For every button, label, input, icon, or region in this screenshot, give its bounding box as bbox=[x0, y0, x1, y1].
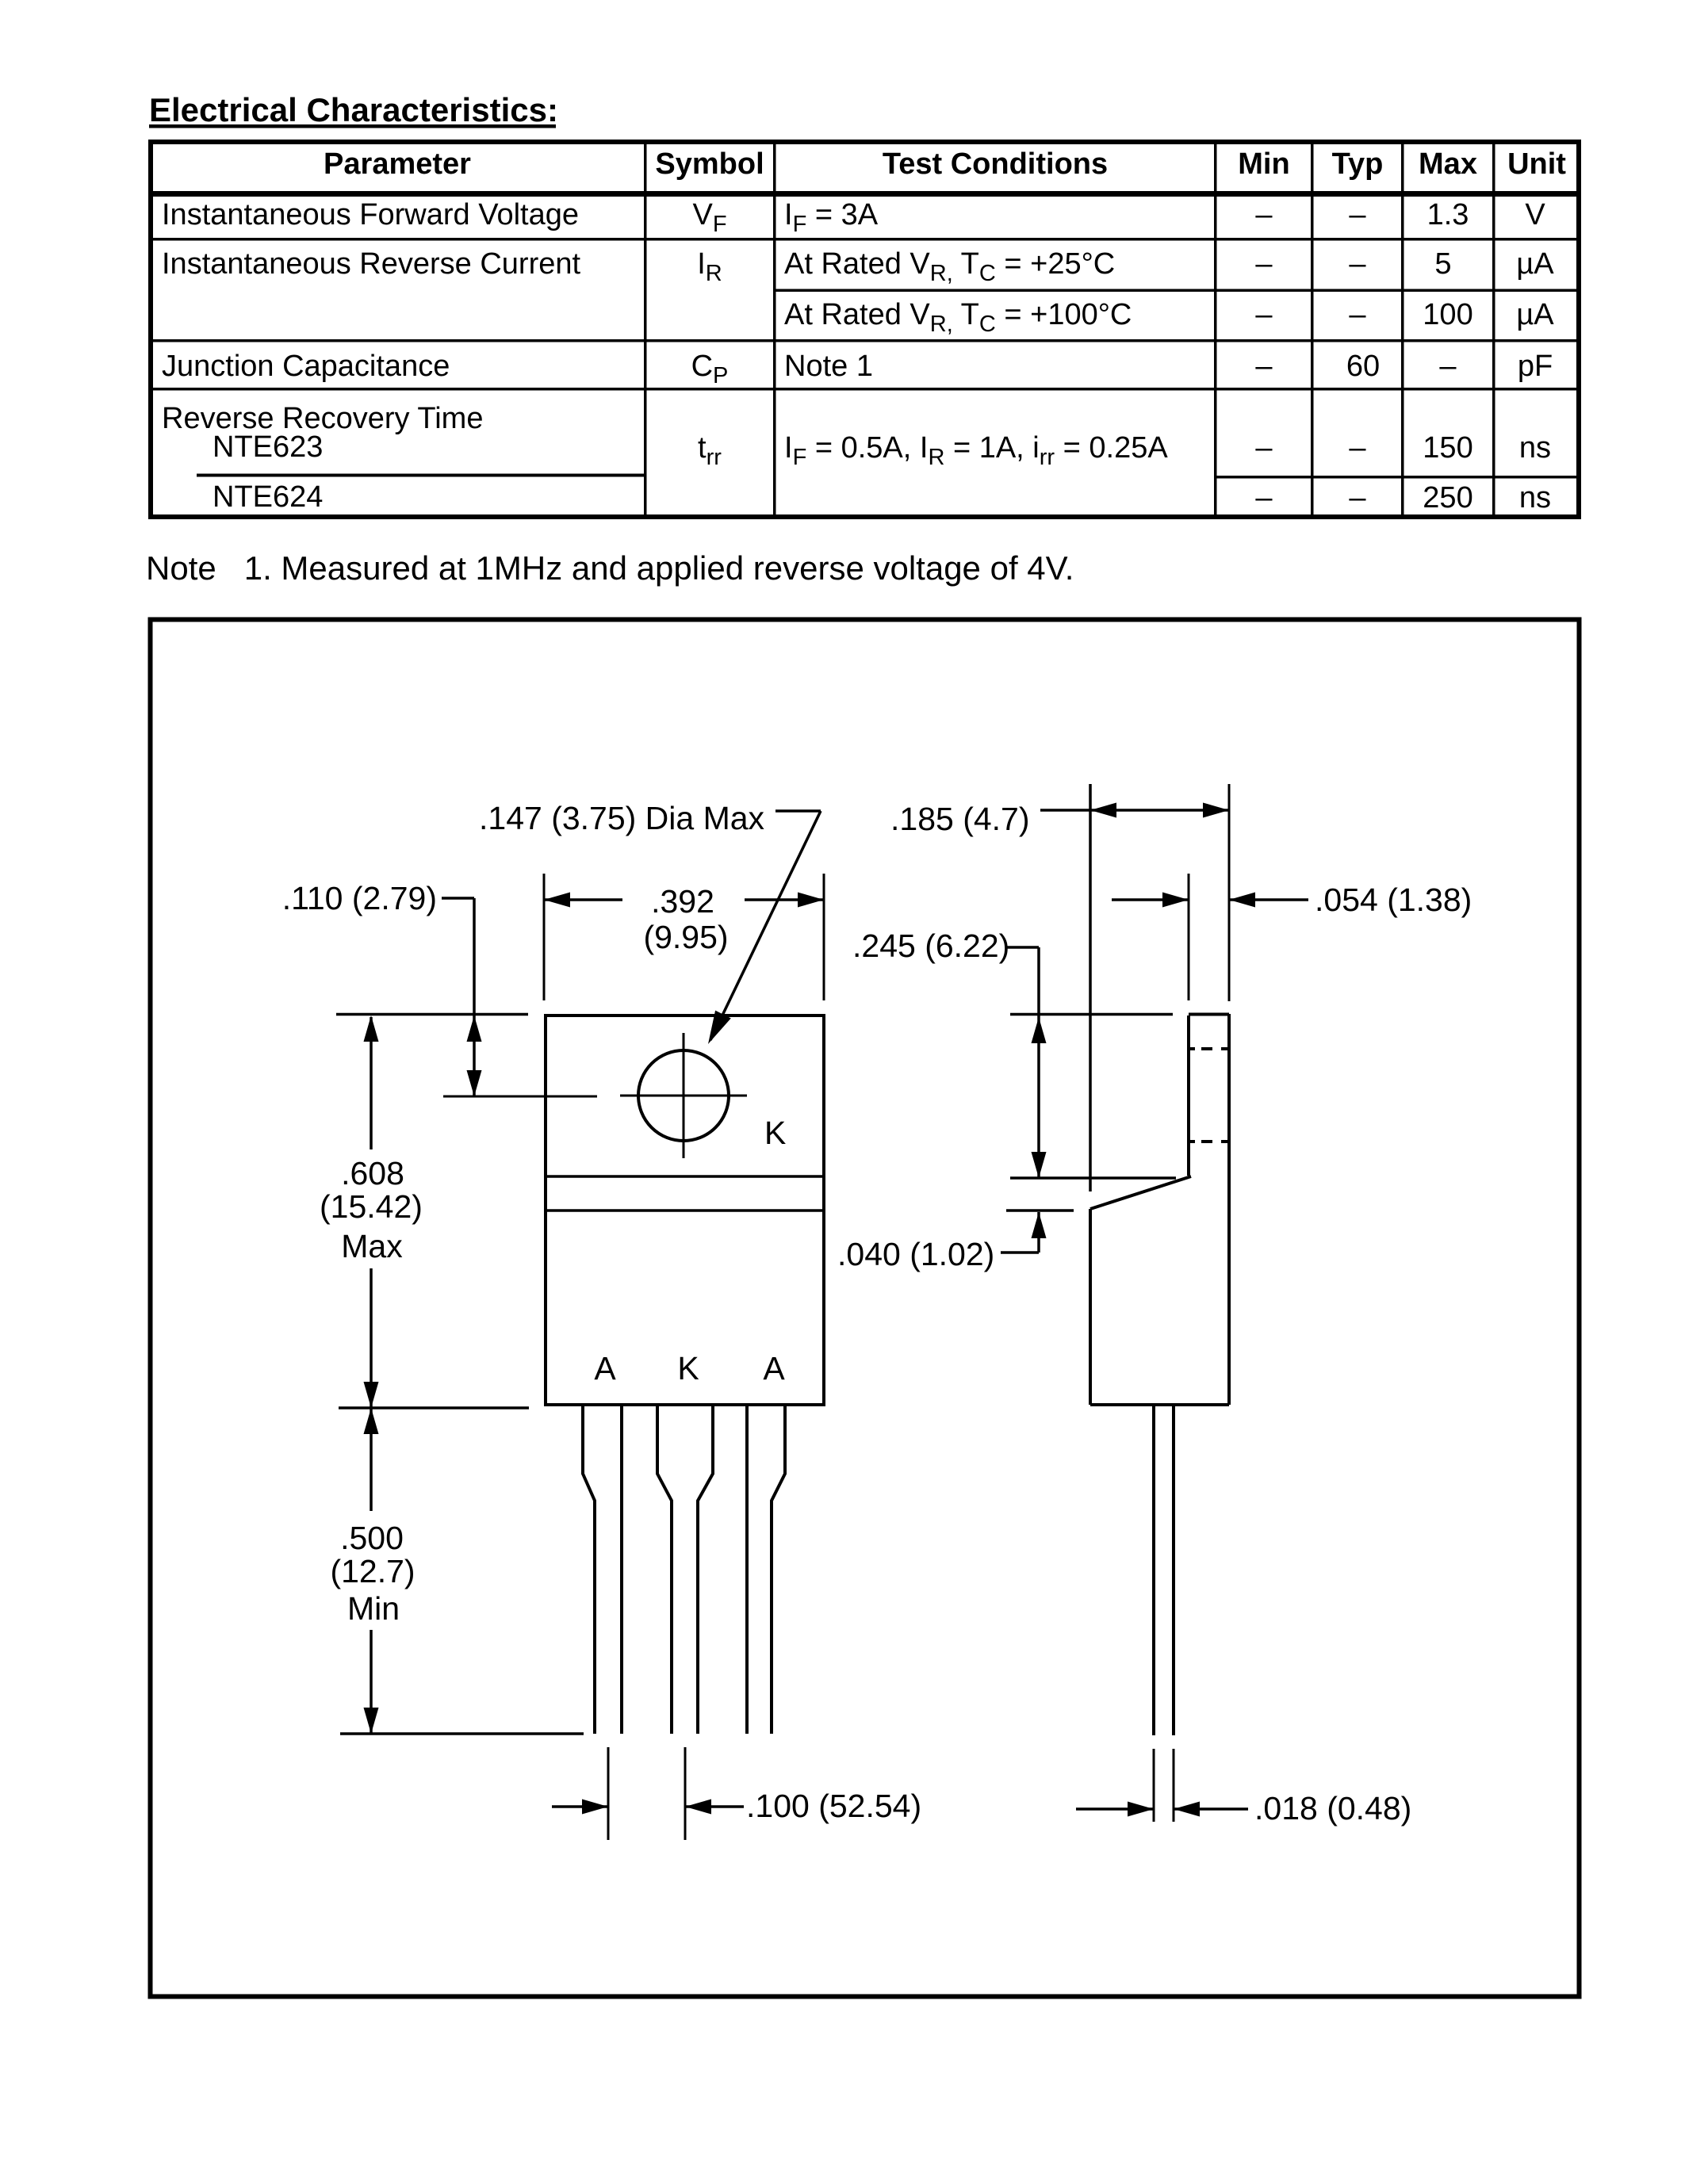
hole horizontal centerline bbox=[620, 1095, 747, 1097]
svg-text:100: 100 bbox=[1423, 298, 1472, 331]
back face bbox=[1227, 1014, 1231, 1405]
svg-text:K: K bbox=[677, 1350, 699, 1387]
svg-text:A: A bbox=[763, 1350, 785, 1387]
svg-text:Max: Max bbox=[341, 1228, 403, 1264]
extension line right bbox=[823, 874, 825, 1000]
column line parameter|symbol bbox=[644, 140, 647, 519]
NTE623/NTE624 separator left bbox=[197, 474, 647, 477]
svg-text:–: – bbox=[1255, 198, 1273, 231]
column line symbol|test conditions bbox=[773, 140, 776, 519]
svg-text:.110 (2.79): .110 (2.79) bbox=[282, 880, 437, 916]
svg-text:Electrical Characteristics:: Electrical Characteristics: bbox=[149, 91, 558, 128]
svg-text:Parameter: Parameter bbox=[324, 147, 471, 181]
svg-text:–: – bbox=[1349, 298, 1366, 331]
table bottom border bbox=[148, 514, 1581, 519]
svg-text:Instantaneous Forward Voltage: Instantaneous Forward Voltage bbox=[162, 198, 579, 231]
svg-text:ns: ns bbox=[1519, 431, 1551, 465]
hole centerline extension left bbox=[443, 1096, 597, 1098]
package top edge / reference bbox=[1010, 1013, 1173, 1016]
column line max|unit bbox=[1492, 140, 1495, 519]
svg-text:.500: .500 bbox=[340, 1520, 404, 1556]
svg-text:–: – bbox=[1439, 350, 1457, 383]
tab front face bbox=[1187, 1016, 1190, 1176]
svg-text:Typ: Typ bbox=[1332, 147, 1384, 181]
svg-text:Junction Capacitance: Junction Capacitance bbox=[162, 350, 450, 383]
svg-text:–: – bbox=[1255, 481, 1273, 514]
svg-text:Min: Min bbox=[1238, 147, 1289, 181]
figure outline box bbox=[151, 620, 1580, 1997]
svg-text:pF: pF bbox=[1518, 350, 1553, 383]
svg-text:–: – bbox=[1349, 198, 1366, 231]
leader elbow bbox=[442, 897, 474, 900]
body bottom edge bbox=[1090, 1403, 1229, 1406]
svg-text:µA: µA bbox=[1516, 298, 1554, 331]
mounting hole bbox=[638, 1050, 729, 1141]
table header separator bbox=[148, 191, 1581, 197]
svg-text:Note 1: Note 1 bbox=[784, 350, 873, 383]
svg-text:Instantaneous Reverse Current: Instantaneous Reverse Current bbox=[162, 247, 581, 281]
svg-text:1.3: 1.3 bbox=[1427, 198, 1469, 231]
hidden hole edges (dashed) bbox=[1189, 1047, 1195, 1050]
svg-text:NTE624: NTE624 bbox=[213, 480, 323, 514]
lead 1 (A) bbox=[583, 1405, 595, 1734]
svg-text:–: – bbox=[1349, 481, 1366, 514]
package body top edge line bbox=[546, 1209, 824, 1212]
svg-text:(15.42): (15.42) bbox=[320, 1188, 423, 1225]
extension line left bbox=[543, 874, 546, 1000]
front face / extension line bbox=[1089, 784, 1092, 1191]
svg-text:(9.95): (9.95) bbox=[643, 919, 728, 955]
row line below forward voltage bbox=[148, 238, 1581, 241]
svg-text:µA: µA bbox=[1516, 247, 1554, 281]
svg-text:.392: .392 bbox=[651, 883, 714, 920]
svg-text:.018 (0.48): .018 (0.48) bbox=[1254, 1790, 1411, 1826]
svg-text:–: – bbox=[1255, 431, 1273, 465]
svg-text:250: 250 bbox=[1423, 481, 1472, 514]
svg-text:A: A bbox=[594, 1350, 616, 1387]
svg-text:–: – bbox=[1255, 350, 1273, 383]
package tab lower edge line bbox=[546, 1175, 824, 1178]
table left border bbox=[148, 140, 153, 519]
chamfer top reference line bbox=[1010, 1176, 1176, 1180]
lead side view bbox=[1152, 1405, 1155, 1735]
column line test|min bbox=[1214, 140, 1217, 519]
chamfer bbox=[1090, 1176, 1191, 1209]
svg-text:.040 (1.02): .040 (1.02) bbox=[837, 1236, 994, 1272]
column line min|typ bbox=[1311, 140, 1314, 519]
extension line tab front bbox=[1188, 874, 1190, 1000]
svg-text:.054 (1.38): .054 (1.38) bbox=[1315, 882, 1472, 918]
svg-text:–: – bbox=[1349, 247, 1366, 281]
svg-text:5: 5 bbox=[1434, 247, 1451, 281]
bottom-of-body reference line bbox=[339, 1406, 529, 1409]
hole vertical centerline bbox=[683, 1033, 685, 1158]
lead 2 (K) bbox=[657, 1405, 672, 1734]
svg-text:IF = 0.5A, IR = 1A, irr = 0.25: IF = 0.5A, IR = 1A, irr = 0.25A bbox=[784, 431, 1168, 470]
svg-text:150: 150 bbox=[1423, 431, 1472, 465]
row line between +25C and +100C bbox=[773, 289, 1581, 293]
lead 3 (A) bbox=[745, 1405, 749, 1734]
svg-text:At Rated VR, TC = +100°C: At Rated VR, TC = +100°C bbox=[784, 298, 1132, 337]
row line below reverse current bbox=[148, 339, 1581, 342]
row line below junction capacitance bbox=[148, 388, 1581, 391]
leader elbow bbox=[1006, 946, 1039, 949]
tab top edge bbox=[1189, 1013, 1229, 1016]
svg-text:.185 (4.7): .185 (4.7) bbox=[890, 801, 1030, 837]
extension line lead1 center bbox=[607, 1747, 610, 1840]
svg-text:.147 (3.75) Dia Max: .147 (3.75) Dia Max bbox=[479, 800, 765, 836]
column line typ|max bbox=[1401, 140, 1404, 519]
svg-text:Max: Max bbox=[1419, 147, 1477, 181]
top reference line bbox=[336, 1013, 528, 1016]
svg-text:Test Conditions: Test Conditions bbox=[883, 147, 1108, 181]
back extension line bbox=[1228, 784, 1231, 1001]
extension line lead2 center bbox=[684, 1747, 687, 1840]
chamfer bottom reference line bbox=[1006, 1209, 1074, 1212]
svg-text:–: – bbox=[1349, 431, 1366, 465]
svg-text:.608: .608 bbox=[341, 1155, 404, 1191]
svg-text:Unit: Unit bbox=[1507, 147, 1566, 181]
package front view outline bbox=[546, 1016, 824, 1405]
svg-text:(12.7): (12.7) bbox=[330, 1553, 415, 1589]
svg-text:60: 60 bbox=[1346, 350, 1380, 383]
svg-text:ns: ns bbox=[1519, 481, 1551, 514]
NTE623/NTE624 separator right bbox=[1216, 476, 1582, 479]
table right border bbox=[1576, 140, 1581, 519]
svg-text:K: K bbox=[764, 1115, 786, 1151]
lead-end reference line bbox=[340, 1732, 584, 1735]
svg-text:Min: Min bbox=[347, 1590, 400, 1627]
svg-text:NTE623: NTE623 bbox=[213, 430, 323, 464]
body front face lower bbox=[1089, 1209, 1092, 1405]
svg-text:.100 (52.54): .100 (52.54) bbox=[746, 1788, 921, 1824]
svg-text:Note 1. Measured at 1MHz and: Note 1. Measured at 1MHz and applied rev… bbox=[146, 549, 1074, 587]
extension line lead back bbox=[1173, 1749, 1175, 1822]
svg-text:V: V bbox=[1525, 198, 1545, 231]
svg-text:–: – bbox=[1255, 247, 1273, 281]
leader elbow bbox=[1001, 1251, 1039, 1254]
table top border bbox=[148, 140, 1581, 144]
extension line lead front bbox=[1153, 1749, 1155, 1822]
svg-text:–: – bbox=[1255, 298, 1273, 331]
svg-text:Symbol: Symbol bbox=[655, 147, 764, 181]
svg-text:.245 (6.22): .245 (6.22) bbox=[852, 928, 1009, 964]
